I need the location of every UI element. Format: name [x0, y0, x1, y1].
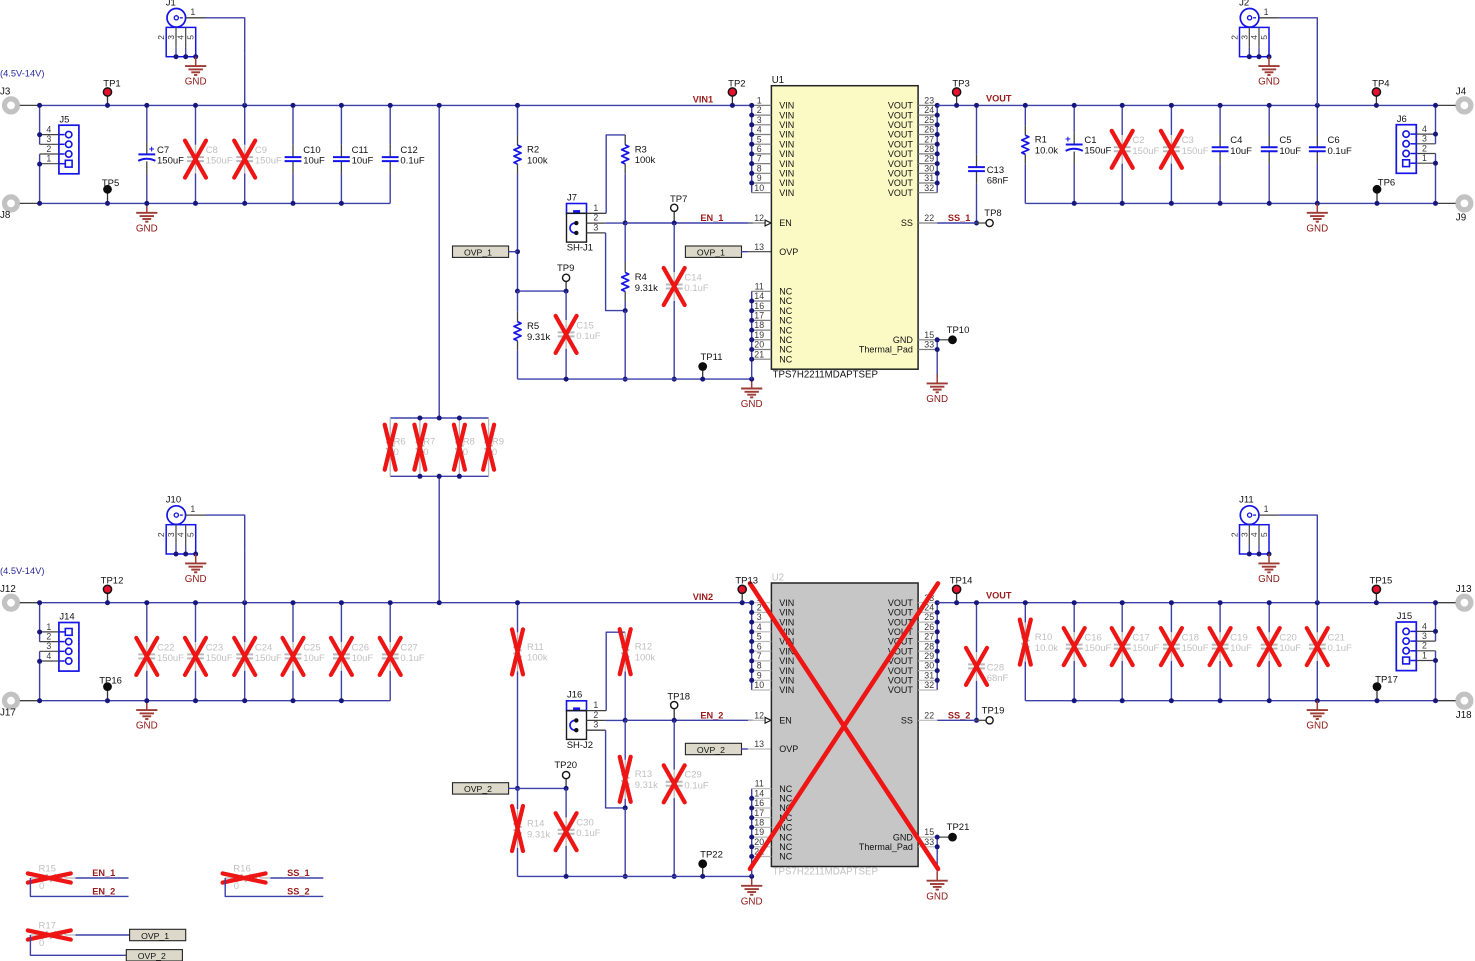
wire OVP_2 net: [30, 935, 126, 955]
ground symbol at chip gnd pin: [936, 374, 938, 383]
svg-text:EN: EN: [779, 218, 792, 228]
svg-text:TP5: TP5: [102, 178, 119, 189]
capacitor C25: [292, 603, 294, 642]
wire OVP_1 net: [76, 934, 130, 936]
wire SS_1 net: [270, 877, 323, 879]
svg-text:14: 14: [754, 788, 764, 798]
svg-text:VOUT: VOUT: [888, 666, 914, 676]
svg-text:R14: R14: [527, 818, 544, 829]
svg-text:J1: J1: [166, 0, 176, 8]
svg-text:VOUT: VOUT: [888, 685, 914, 695]
svg-text:3: 3: [46, 134, 51, 144]
svg-text:OVP_2: OVP_2: [464, 784, 492, 794]
svg-text:23: 23: [924, 96, 934, 106]
svg-text:VOUT: VOUT: [888, 188, 914, 198]
svg-text:29: 29: [924, 651, 934, 661]
svg-text:SH-J1: SH-J1: [567, 243, 593, 254]
svg-text:20: 20: [754, 837, 764, 847]
capacitor C21: [1316, 603, 1318, 633]
svg-text:1: 1: [1264, 504, 1269, 514]
svg-text:TP2: TP2: [728, 78, 745, 89]
testpoint TP4: [1375, 92, 1377, 105]
svg-text:GND: GND: [1258, 77, 1280, 88]
svg-text:C9: C9: [255, 145, 267, 156]
svg-text:C21: C21: [1328, 633, 1345, 644]
wire output GND rail: [1025, 202, 1435, 204]
svg-text:VIN: VIN: [779, 656, 794, 666]
wire flag to OVP pin: [741, 748, 748, 750]
svg-text:TP9: TP9: [557, 263, 574, 274]
svg-text:R8: R8: [463, 437, 475, 448]
capacitor C3: [1170, 105, 1172, 135]
svg-text:TP13: TP13: [735, 576, 758, 587]
svg-text:C6: C6: [1328, 135, 1340, 146]
U2 GND pin 15 and Thermal_Pad pin 33: [918, 836, 937, 838]
svg-text:10uF: 10uF: [1279, 643, 1301, 654]
svg-text:C25: C25: [303, 642, 320, 653]
svg-text:12: 12: [754, 213, 764, 223]
svg-text:150uF: 150uF: [1182, 146, 1209, 157]
svg-text:31: 31: [924, 670, 934, 680]
svg-text:6: 6: [757, 641, 762, 651]
wire J7 pin1 to R3: [587, 212, 607, 214]
wire J3 lead: [20, 104, 40, 106]
svg-text:10.0k: 10.0k: [1035, 146, 1058, 157]
svg-text:1: 1: [46, 154, 51, 164]
svg-text:C12: C12: [400, 145, 417, 156]
svg-text:VOUT: VOUT: [888, 101, 914, 111]
svg-text:SS: SS: [901, 218, 913, 228]
svg-text:NC: NC: [779, 296, 792, 306]
svg-text:5: 5: [1259, 35, 1269, 40]
DNP cross over U2: [750, 583, 938, 869]
svg-text:TP19: TP19: [982, 705, 1005, 716]
connector J11 SMA: [1240, 506, 1259, 525]
svg-text:4: 4: [176, 532, 186, 537]
svg-text:VIN: VIN: [779, 139, 794, 149]
connector J18 banana jack: [1458, 694, 1471, 707]
resistor R9 0 ohm: [488, 418, 490, 428]
junction dots input bus: [37, 103, 42, 108]
svg-text:C27: C27: [400, 642, 417, 653]
net flag OVP_1 at chip: [685, 246, 741, 257]
capacitor C19: [1219, 603, 1221, 633]
capacitor C6: [1316, 105, 1318, 135]
svg-text:150uF: 150uF: [255, 653, 282, 664]
svg-text:J8: J8: [0, 210, 11, 221]
svg-text:VOUT: VOUT: [888, 178, 914, 188]
svg-text:R9: R9: [492, 437, 504, 448]
svg-text:4: 4: [176, 35, 186, 40]
svg-text:6: 6: [757, 144, 762, 154]
svg-text:9.31k: 9.31k: [635, 283, 658, 294]
svg-text:26: 26: [924, 125, 934, 135]
svg-text:5: 5: [186, 532, 196, 537]
U2 NC pins: [751, 789, 753, 877]
svg-text:NC: NC: [779, 287, 792, 297]
svg-text:1: 1: [757, 96, 762, 106]
svg-text:100k: 100k: [635, 653, 656, 664]
svg-text:GND: GND: [1258, 574, 1280, 585]
svg-text:+: +: [149, 144, 155, 155]
wire output header bus: [1435, 603, 1437, 641]
svg-text:5: 5: [757, 134, 762, 144]
svg-text:4: 4: [1249, 532, 1259, 537]
svg-text:VIN: VIN: [779, 598, 794, 608]
svg-text:C1: C1: [1084, 135, 1096, 146]
svg-text:TP14: TP14: [950, 576, 973, 587]
svg-text:30: 30: [924, 163, 934, 173]
svg-text:R6: R6: [394, 437, 406, 448]
capacitor C8: [195, 105, 197, 144]
svg-text:EN_1: EN_1: [700, 213, 723, 223]
svg-text:68nF: 68nF: [987, 176, 1009, 187]
wire EN_1 net: [625, 222, 753, 224]
capacitor C9: [244, 105, 246, 144]
svg-text:10uF: 10uF: [1230, 643, 1252, 654]
svg-text:VIN: VIN: [779, 617, 794, 627]
connector J8 gnd banana jack: [5, 197, 18, 210]
svg-text:J7: J7: [567, 192, 577, 203]
resistor R4 9.31k: [624, 223, 626, 263]
U1 SS pin 22: [918, 222, 937, 224]
svg-text:100k: 100k: [527, 653, 548, 664]
svg-text:9: 9: [757, 670, 762, 680]
svg-text:3: 3: [1422, 134, 1427, 144]
capacitor C7: [146, 105, 148, 142]
svg-text:3: 3: [1239, 532, 1249, 537]
ground symbol control section: [751, 379, 753, 388]
svg-text:VOUT: VOUT: [888, 139, 914, 149]
wire thermal pad to gnd: [936, 837, 938, 871]
svg-text:2: 2: [757, 105, 762, 115]
svg-text:OVP_1: OVP_1: [141, 931, 169, 941]
svg-text:0.1uF: 0.1uF: [684, 780, 708, 791]
svg-text:C10: C10: [303, 145, 320, 156]
svg-text:14: 14: [754, 291, 764, 301]
wire EN_2 net: [30, 878, 128, 896]
svg-text:VOUT: VOUT: [888, 169, 914, 179]
svg-text:16: 16: [754, 301, 764, 311]
svg-text:8: 8: [757, 661, 762, 671]
connector J13 banana jack: [1458, 596, 1471, 609]
wire J16 pin1 to R12: [587, 710, 607, 712]
svg-text:NC: NC: [779, 794, 792, 804]
svg-text:TP18: TP18: [667, 692, 690, 703]
svg-text:TPS7H2211MDAPTSEP: TPS7H2211MDAPTSEP: [773, 867, 878, 878]
wire J7 pin2 to EN: [587, 222, 606, 224]
svg-text:GND: GND: [136, 721, 158, 732]
svg-text:C26: C26: [352, 642, 369, 653]
svg-text:20: 20: [754, 340, 764, 350]
svg-text:C24: C24: [255, 642, 272, 653]
svg-text:R2: R2: [527, 145, 539, 156]
svg-text:2: 2: [1422, 641, 1427, 651]
svg-text:150uF: 150uF: [206, 156, 233, 167]
svg-text:9.31k: 9.31k: [635, 780, 658, 791]
svg-text:OVP: OVP: [779, 247, 798, 257]
svg-text:2: 2: [46, 632, 51, 642]
svg-text:12: 12: [754, 710, 764, 720]
svg-text:R12: R12: [635, 642, 652, 653]
svg-text:NC: NC: [779, 842, 792, 852]
wire VIN1 input rail: [40, 104, 752, 106]
ground symbol input: [146, 203, 148, 212]
U1 VIN pins 1-10: [751, 105, 753, 192]
svg-text:Thermal_Pad: Thermal_Pad: [859, 842, 913, 852]
svg-text:TP3: TP3: [952, 78, 969, 89]
svg-text:C8: C8: [206, 145, 218, 156]
capacitor C29 0.1uF: [673, 720, 675, 769]
svg-text:C14: C14: [684, 272, 701, 283]
ground symbol control section: [751, 876, 753, 885]
svg-text:VOUT: VOUT: [888, 598, 914, 608]
wire gnd rail below U1: [518, 378, 752, 380]
svg-text:13: 13: [754, 739, 764, 749]
svg-text:0.1uF: 0.1uF: [576, 331, 600, 342]
ground symbol input: [146, 701, 148, 710]
wire R4 to gnd rail: [624, 311, 626, 380]
svg-text:150uF: 150uF: [206, 653, 233, 664]
svg-text:2: 2: [1422, 143, 1427, 153]
wire R11 to OVP/TP row: [517, 671, 519, 788]
svg-text:0.1uF: 0.1uF: [400, 156, 424, 167]
svg-text:2: 2: [156, 532, 166, 537]
svg-text:GND: GND: [741, 896, 763, 907]
resistor R14 9.31k: [517, 788, 519, 809]
svg-text:24: 24: [924, 105, 934, 115]
capacitor C24: [244, 603, 246, 642]
svg-text:5: 5: [757, 632, 762, 642]
svg-text:J14: J14: [59, 612, 74, 623]
svg-text:1: 1: [190, 504, 195, 514]
resistor R1 10.0k: [1024, 105, 1026, 125]
svg-text:R13: R13: [635, 769, 652, 780]
testpoint TP14: [956, 589, 958, 602]
capacitor C26: [340, 603, 342, 642]
svg-text:C11: C11: [352, 145, 369, 156]
svg-text:J5: J5: [59, 114, 69, 125]
capacitor C2: [1121, 105, 1123, 135]
wire J9 lead: [1437, 202, 1456, 204]
resistor R6 0 ohm: [389, 418, 391, 428]
svg-text:3: 3: [757, 612, 762, 622]
svg-text:0.1uF: 0.1uF: [400, 653, 424, 664]
resistor R10 10.0k: [1024, 603, 1026, 623]
svg-text:R15: R15: [39, 864, 56, 875]
net flag OVP_2 at chip: [685, 743, 741, 754]
svg-text:1: 1: [190, 7, 195, 17]
svg-text:TP20: TP20: [554, 760, 577, 771]
svg-text:C22: C22: [157, 642, 174, 653]
svg-text:GND: GND: [741, 399, 763, 410]
net flag OVP_1: [130, 929, 186, 940]
svg-text:R7: R7: [423, 437, 435, 448]
wire J18 lead: [1437, 700, 1456, 702]
svg-text:2: 2: [1230, 532, 1240, 537]
resistor R5 9.31k: [517, 291, 519, 312]
wire R2 to OVP/TP row: [517, 174, 519, 252]
svg-text:J17: J17: [0, 707, 16, 718]
wire J8 lead: [20, 202, 40, 204]
svg-text:32: 32: [924, 183, 934, 193]
svg-text:R11: R11: [527, 642, 544, 653]
svg-text:9: 9: [757, 173, 762, 183]
wire EN_2 net: [625, 719, 753, 721]
svg-text:GND: GND: [1306, 223, 1328, 234]
svg-text:VIN: VIN: [779, 666, 794, 676]
svg-text:TP6: TP6: [1378, 177, 1395, 188]
svg-text:VOUT: VOUT: [888, 130, 914, 140]
capacitor C14 0.1uF: [673, 223, 675, 272]
wire J16 pin3 to R13 bottom: [587, 729, 606, 731]
svg-text:TP12: TP12: [101, 576, 124, 587]
svg-text:R1: R1: [1035, 135, 1047, 146]
svg-text:28: 28: [924, 144, 934, 154]
svg-text:C7: C7: [157, 145, 169, 156]
wire J12 lead: [20, 602, 40, 604]
svg-text:VOUT: VOUT: [888, 110, 914, 120]
svg-text:SS_2: SS_2: [948, 710, 970, 720]
wire J11 pin1 to rail: [1259, 514, 1279, 516]
svg-text:C17: C17: [1132, 633, 1149, 644]
wire jumper block to VIN2: [438, 476, 440, 602]
svg-text:VIN1: VIN1: [693, 95, 713, 105]
svg-text:0: 0: [39, 938, 44, 949]
U1 VOUT pins 23-32: [936, 105, 938, 192]
resistor R8 0 ohm: [458, 418, 460, 428]
net flag OVP_1 left: [453, 246, 509, 257]
U1 NC pins: [751, 291, 753, 379]
svg-text:VIN: VIN: [779, 159, 794, 169]
svg-text:NC: NC: [779, 852, 792, 862]
svg-text:OVP: OVP: [779, 744, 798, 754]
testpoint TP7: [673, 208, 675, 223]
svg-text:R3: R3: [635, 144, 647, 155]
wire SS_2 net: [225, 878, 323, 896]
svg-text:NC: NC: [779, 354, 792, 364]
testpoint TP15: [1375, 589, 1377, 602]
svg-text:21: 21: [754, 349, 764, 359]
connector J1 SMA: [167, 8, 186, 27]
svg-text:J16: J16: [567, 690, 582, 701]
svg-text:C5: C5: [1279, 135, 1291, 146]
svg-text:10.0k: 10.0k: [1035, 643, 1058, 654]
testpoint TP22: [702, 864, 704, 877]
svg-text:10uF: 10uF: [352, 156, 374, 167]
wire VIN1 to jumper block: [438, 105, 440, 418]
U1 GND pin 15 and Thermal_Pad pin 33: [918, 339, 937, 341]
capacitor C13 68nF: [976, 105, 978, 154]
svg-text:VIN: VIN: [779, 169, 794, 179]
svg-text:J13: J13: [1456, 584, 1472, 595]
svg-text:VOUT: VOUT: [986, 591, 1012, 601]
svg-text:VIN: VIN: [779, 110, 794, 120]
jumper J16: [567, 701, 587, 711]
svg-text:J3: J3: [0, 87, 11, 98]
svg-text:J10: J10: [166, 495, 181, 506]
svg-text:C23: C23: [206, 642, 223, 653]
svg-text:17: 17: [754, 311, 764, 321]
svg-text:2: 2: [593, 213, 598, 223]
resistor R16 0 ohm link: [225, 877, 235, 879]
connector J10 SMA: [167, 506, 186, 525]
svg-text:VIN: VIN: [779, 120, 794, 130]
svg-text:0: 0: [234, 881, 239, 892]
svg-text:OVP_2: OVP_2: [138, 951, 166, 961]
connector J12 input banana jack: [5, 596, 18, 609]
svg-text:SS_1: SS_1: [287, 868, 309, 878]
svg-text:5: 5: [1259, 532, 1269, 537]
svg-text:SS_2: SS_2: [287, 886, 309, 896]
svg-text:R5: R5: [527, 321, 539, 332]
svg-text:U1: U1: [772, 75, 784, 86]
svg-text:GND: GND: [136, 223, 158, 234]
svg-text:7: 7: [757, 154, 762, 164]
svg-text:0: 0: [394, 447, 399, 458]
wire J17 lead: [20, 700, 40, 702]
testpoint TP18: [673, 705, 675, 720]
svg-text:VIN2: VIN2: [693, 592, 713, 602]
svg-text:J18: J18: [1456, 710, 1472, 721]
wire header to gnd jack: [39, 154, 41, 203]
svg-text:1: 1: [593, 203, 598, 213]
svg-text:R10: R10: [1035, 632, 1052, 643]
svg-text:3: 3: [1422, 631, 1427, 641]
U2 SS pin 22: [918, 719, 937, 721]
svg-text:GND: GND: [1306, 721, 1328, 732]
wire flag to OVP pin: [741, 251, 748, 253]
svg-text:150uF: 150uF: [157, 156, 184, 167]
svg-text:10: 10: [754, 680, 764, 690]
svg-text:C13: C13: [987, 165, 1004, 176]
svg-text:25: 25: [924, 115, 934, 125]
capacitor C17: [1121, 603, 1123, 633]
testpoint TP17: [1376, 687, 1378, 701]
connector J17 gnd banana jack: [5, 694, 18, 707]
svg-text:C18: C18: [1182, 633, 1199, 644]
ground symbol output: [1316, 701, 1318, 710]
svg-text:100k: 100k: [635, 155, 656, 166]
svg-text:0.1uF: 0.1uF: [1328, 643, 1352, 654]
svg-text:1: 1: [1422, 650, 1427, 660]
svg-text:13: 13: [754, 242, 764, 252]
capacitor C18: [1170, 603, 1172, 633]
svg-text:TP16: TP16: [99, 675, 122, 686]
svg-text:TP4: TP4: [1372, 78, 1389, 89]
svg-text:100k: 100k: [527, 155, 548, 166]
U2 VIN pins 1-10: [751, 603, 753, 690]
wire J7 pin3 to R4 bottom: [587, 232, 606, 234]
resistor R12 100k: [624, 632, 626, 642]
svg-text:0.1uF: 0.1uF: [684, 283, 708, 294]
svg-text:2: 2: [593, 710, 598, 720]
resistor R13 9.31k: [624, 720, 626, 760]
svg-text:J15: J15: [1397, 611, 1412, 622]
capacitor C10: [292, 105, 294, 144]
svg-text:3: 3: [757, 115, 762, 125]
svg-text:3: 3: [1239, 35, 1249, 40]
svg-text:0: 0: [463, 447, 468, 458]
svg-text:J2: J2: [1239, 0, 1249, 8]
ground symbol at chip gnd pin: [936, 871, 938, 880]
svg-text:C20: C20: [1279, 633, 1296, 644]
svg-text:68nF: 68nF: [987, 673, 1009, 684]
wire J13 lead: [1437, 602, 1456, 604]
wire jumper block bottom rail: [390, 475, 488, 477]
resistor R15 0 ohm link: [30, 877, 40, 879]
svg-text:SS_1: SS_1: [948, 213, 970, 223]
